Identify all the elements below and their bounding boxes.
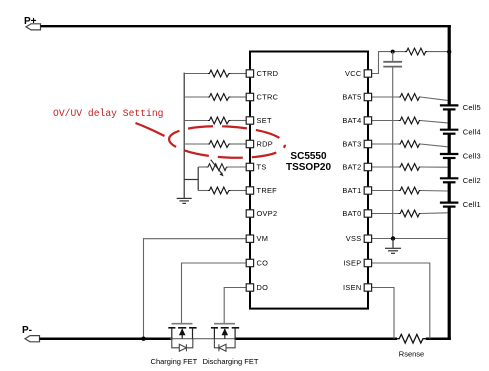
svg-text:Cell2: Cell2: [463, 176, 481, 185]
ground (left): [177, 198, 192, 203]
resistor RDP: [208, 141, 231, 148]
battery cell Cell2: [440, 178, 459, 182]
svg-text:OV/UV delay Setting: OV/UV delay Setting: [53, 108, 163, 119]
resistor R-VCC: [405, 48, 427, 55]
wire ISEP: [372, 263, 430, 339]
transistor Q1 charging FET: [168, 324, 196, 352]
battery cell Cell1: [440, 203, 459, 207]
battery cell Cell4: [440, 130, 459, 134]
wire BAT3 + resistor: [372, 143, 399, 145]
wire between FETs: [170, 338, 236, 340]
terminal P-: [22, 325, 40, 342]
wire bottom rail right (discharging FET to Rsense): [235, 337, 398, 340]
wire to CTRD pin: [231, 73, 247, 75]
wire VM: [144, 239, 247, 339]
wire bottom rail left (P- to charging FET): [40, 337, 173, 340]
svg-text:TS: TS: [257, 163, 267, 172]
wire CTRD row: [184, 73, 208, 75]
svg-text:SC5550: SC5550: [290, 151, 327, 162]
wire branch vertical: [197, 167, 199, 191]
junction dot VSS: [391, 236, 395, 240]
annotation red dashed ellipse around RDP: [168, 123, 285, 160]
wire VSS: [372, 238, 448, 240]
resistor CTRC: [208, 94, 231, 101]
resistor SET: [208, 117, 231, 124]
svg-text:Cell3: Cell3: [463, 152, 481, 161]
svg-text:TSSOP20: TSSOP20: [286, 162, 331, 173]
svg-text:BAT4: BAT4: [342, 116, 361, 125]
ground (VSS): [385, 239, 401, 254]
svg-text:OVP2: OVP2: [257, 209, 278, 218]
wire to CTRC pin: [231, 96, 247, 98]
junction dot bus: [447, 50, 451, 54]
wire VCC: [372, 52, 405, 74]
wire BAT1 + resistor: [372, 190, 399, 192]
svg-text:Cell1: Cell1: [463, 200, 481, 209]
wire DO to discharging FET gate: [224, 288, 246, 324]
wire right bus B+ (battery stack bus): [448, 25, 451, 340]
wire bottom rail after Rsense to bus: [426, 337, 451, 340]
wire to bus: [427, 51, 449, 53]
wire TS/TREF branch link: [184, 179, 198, 181]
svg-text:BAT3: BAT3: [342, 140, 361, 149]
resistor Rsense: [397, 334, 426, 343]
wire BAT0 + resistor: [372, 213, 399, 215]
svg-text:Cell5: Cell5: [463, 103, 481, 112]
wire to SET pin: [231, 120, 247, 122]
thermistor RT (TS): [207, 164, 228, 171]
svg-text:VSS: VSS: [346, 234, 362, 243]
junction dot cap: [391, 50, 395, 54]
wire BAT2 + resistor: [372, 166, 399, 168]
pin boxes (pins 1-20): [246, 70, 371, 291]
resistor CTRD: [208, 70, 231, 77]
svg-text:CTRC: CTRC: [257, 93, 279, 102]
svg-text:BAT1: BAT1: [342, 186, 361, 195]
svg-text:Rsense: Rsense: [399, 350, 424, 359]
wire P+ top rail: [41, 25, 451, 27]
svg-text:DO: DO: [257, 283, 269, 292]
svg-text:VCC: VCC: [345, 69, 362, 78]
wire to RDP pin: [231, 143, 247, 145]
wire RDP row: [184, 143, 208, 145]
wire to TS pin: [226, 166, 246, 168]
wire TREF row stub: [198, 190, 208, 192]
resistor TREF: [208, 187, 231, 194]
wire BAT5 + resistor: [372, 96, 399, 98]
battery cell Cell5: [440, 105, 459, 109]
svg-text:Discharging FET: Discharging FET: [203, 357, 259, 366]
annotation red arrow: [136, 123, 165, 136]
svg-text:TREF: TREF: [257, 186, 278, 195]
svg-text:VM: VM: [257, 234, 269, 243]
wire TS row stub: [198, 166, 206, 168]
wire CO to charging FET gate: [182, 263, 247, 324]
svg-text:Charging FET: Charging FET: [151, 357, 198, 366]
svg-text:RDP: RDP: [257, 140, 274, 149]
svg-text:CO: CO: [257, 259, 269, 268]
svg-text:SET: SET: [257, 116, 272, 125]
svg-text:BAT2: BAT2: [342, 163, 361, 172]
svg-text:ISEP: ISEP: [343, 259, 361, 268]
svg-text:BAT0: BAT0: [342, 209, 361, 218]
svg-text:CTRD: CTRD: [257, 69, 279, 78]
wire to TREF pin: [231, 190, 247, 192]
node left bus (delay setting resistor common): [183, 73, 185, 198]
transistor Q2 discharging FET: [211, 324, 239, 352]
junction VM/rail: [141, 337, 145, 341]
capacitor C1: [383, 52, 402, 239]
svg-text:ISEN: ISEN: [343, 283, 361, 292]
body diode D1: [172, 339, 193, 352]
wire SET row: [184, 120, 208, 122]
wire CTRC row: [184, 96, 208, 98]
wire ISEN: [372, 288, 394, 339]
wire BAT4 + resistor: [372, 120, 399, 122]
battery cell Cell3: [440, 154, 459, 158]
body diode D2: [214, 339, 235, 352]
svg-text:P-: P-: [22, 325, 32, 336]
svg-text:Cell4: Cell4: [463, 127, 481, 136]
svg-text:BAT5: BAT5: [342, 93, 361, 102]
IC U1 body: [250, 52, 368, 309]
terminal P+: [24, 16, 41, 30]
